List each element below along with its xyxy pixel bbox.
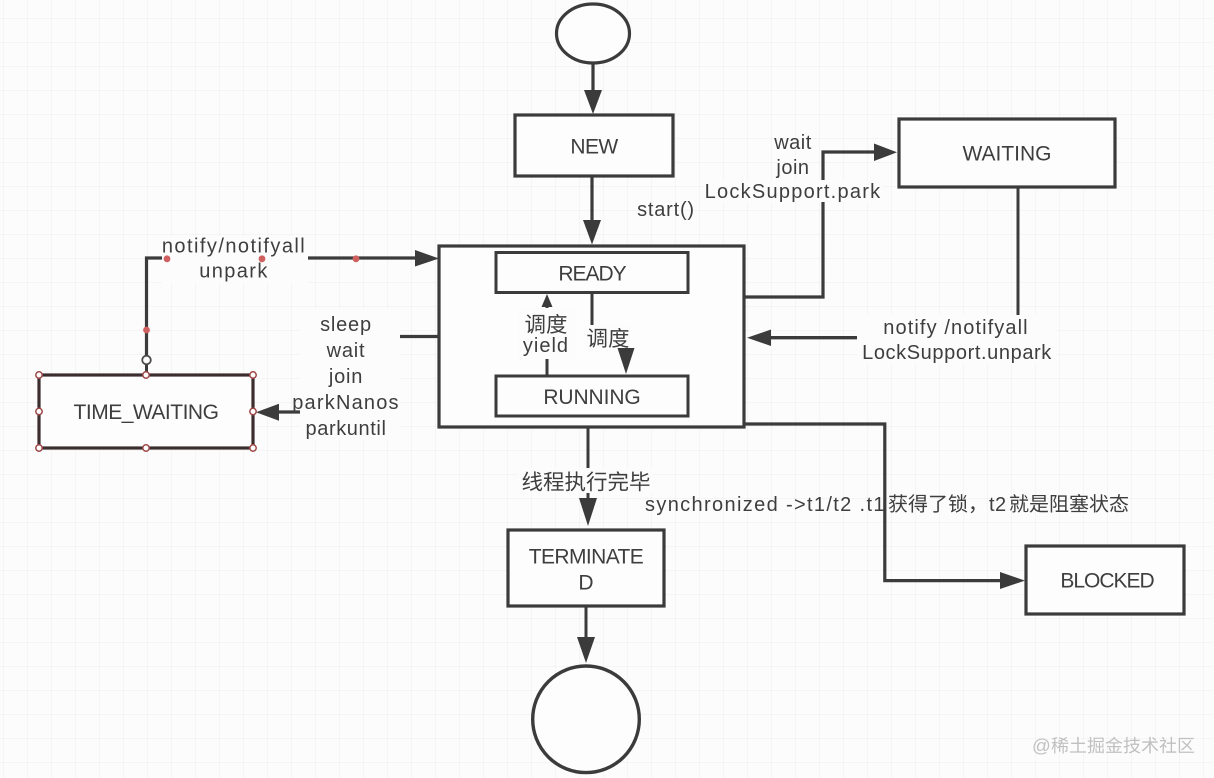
svg-text:notify /notifyall: notify /notifyall — [883, 317, 1028, 339]
svg-text:wait: wait — [326, 340, 366, 362]
svg-text:t2: t2 — [989, 494, 1007, 516]
svg-text:yield: yield — [523, 335, 569, 357]
svg-text:READY: READY — [558, 263, 626, 286]
svg-text:D: D — [578, 572, 593, 595]
svg-text:parkuntil: parkuntil — [306, 418, 387, 440]
svg-text:TIME_WAITING: TIME_WAITING — [74, 401, 219, 424]
svg-text:parkNanos: parkNanos — [292, 392, 400, 414]
svg-text:LockSupport.unpark: LockSupport.unpark — [862, 342, 1052, 364]
svg-text:TERMINATE: TERMINATE — [529, 545, 644, 568]
svg-text:unpark: unpark — [199, 261, 269, 283]
svg-text:start(): start() — [637, 199, 695, 221]
svg-text:WAITING: WAITING — [962, 142, 1051, 165]
svg-text:wait: wait — [773, 132, 812, 154]
svg-text:notify/notifyall: notify/notifyall — [162, 236, 306, 258]
svg-text:NEW: NEW — [570, 136, 618, 159]
svg-text:join: join — [775, 157, 809, 179]
svg-text:LockSupport.park: LockSupport.park — [705, 181, 882, 203]
svg-text:RUNNING: RUNNING — [543, 386, 640, 409]
svg-text:@: @ — [1032, 735, 1051, 756]
svg-text:join: join — [328, 366, 363, 388]
svg-text:synchronized ->t1/t2 .t1: synchronized ->t1/t2 .t1 — [645, 494, 886, 516]
svg-text:sleep: sleep — [320, 314, 372, 336]
svg-text:BLOCKED: BLOCKED — [1060, 570, 1154, 593]
